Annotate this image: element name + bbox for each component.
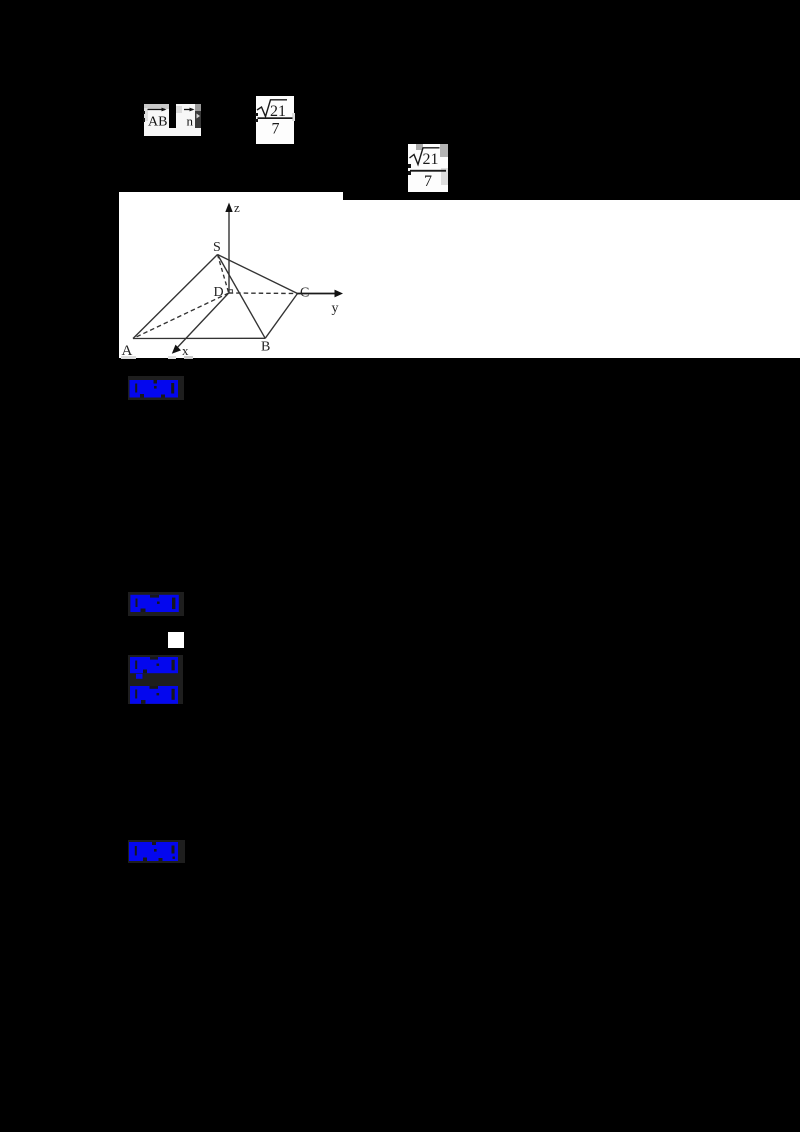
x-axis bbox=[175, 293, 229, 350]
blue label 1 (dianping) bbox=[128, 376, 184, 400]
radical sign bbox=[410, 148, 440, 165]
formula image: vector AB bbox=[144, 104, 169, 136]
diagram: pyramid S-ABCD with axes bbox=[119, 191, 800, 358]
white chevron artifact bbox=[197, 114, 201, 119]
gray smudge under A bbox=[121, 356, 137, 359]
blue label 5 (jieda) bbox=[128, 840, 185, 864]
edge A-B bbox=[133, 337, 265, 339]
y-axis bbox=[298, 293, 337, 295]
dashed edge D-A bbox=[133, 293, 229, 339]
svg-text:AB: AB bbox=[148, 115, 167, 130]
blue labels 3+4 (zhuanti / fenxi) bbox=[128, 655, 183, 704]
svg-text:D: D bbox=[214, 285, 224, 300]
svg-text:21: 21 bbox=[423, 151, 439, 168]
svg-text:7: 7 bbox=[272, 121, 280, 138]
formula image: vector n bbox=[176, 104, 195, 136]
svg-text:7: 7 bbox=[424, 173, 432, 190]
edge S-C bbox=[218, 255, 298, 294]
fraction bar bbox=[410, 170, 446, 172]
right angle mark at D bbox=[229, 290, 233, 294]
svg-text:B: B bbox=[261, 340, 270, 355]
formula image: sqrt(21)/7 first bbox=[256, 96, 294, 144]
white background of figure bbox=[119, 192, 343, 358]
arrow over AB bbox=[148, 109, 166, 111]
white strip linking the two vector images bbox=[169, 128, 177, 136]
svg-text:n: n bbox=[187, 114, 194, 129]
z-axis bbox=[228, 210, 230, 293]
fraction bar bbox=[258, 117, 293, 119]
svg-text:C: C bbox=[300, 286, 309, 301]
dashed edge D-C bbox=[229, 292, 298, 295]
svg-text:z: z bbox=[234, 200, 240, 215]
edge B-C bbox=[265, 294, 297, 339]
radical sign bbox=[257, 100, 287, 117]
edge S-B bbox=[218, 255, 266, 339]
blue label 2 (kaodian) bbox=[128, 592, 184, 616]
small white square image placeholder bbox=[168, 632, 184, 648]
arrow over n bbox=[184, 109, 193, 111]
formula image: sqrt(21)/7 second bbox=[408, 144, 448, 192]
edge S-A bbox=[133, 255, 218, 339]
gray smudge under x label bbox=[168, 356, 177, 360]
dashed edge S-D bbox=[218, 255, 229, 294]
svg-text:S: S bbox=[213, 240, 221, 255]
svg-text:y: y bbox=[332, 301, 339, 316]
